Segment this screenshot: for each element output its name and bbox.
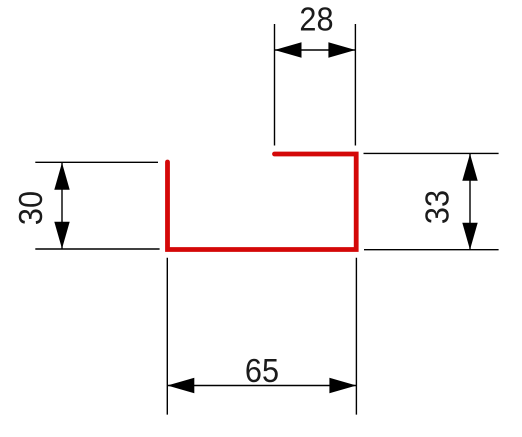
svg-text:30: 30 [12, 191, 49, 225]
svg-text:33: 33 [418, 190, 455, 224]
svg-text:65: 65 [245, 352, 279, 389]
svg-text:28: 28 [299, 0, 333, 37]
